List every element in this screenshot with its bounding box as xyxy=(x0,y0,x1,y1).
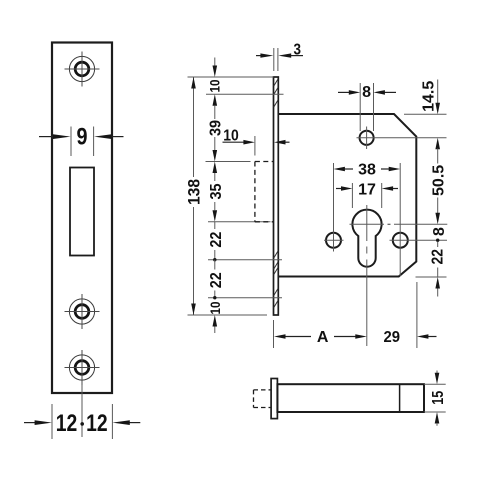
right column arrow up to y=277 from below xyxy=(435,277,440,289)
dimension 15 top arrow xyxy=(435,373,440,385)
extension line y=315 (bottom of faceplate) xyxy=(188,314,268,316)
chain line 161-222 lower part xyxy=(214,202,216,210)
svg-text:22: 22 xyxy=(208,272,225,288)
hidden bolt (dashed) behind faceplate xyxy=(255,162,274,222)
dimension 17: right arrow xyxy=(392,188,398,190)
chain: arrow down onto y=161.5 xyxy=(213,150,218,162)
dimension 3: left arrow xyxy=(256,55,262,57)
extension line y=221.8 xyxy=(208,221,271,223)
svg-text:9: 9 xyxy=(77,123,88,150)
svg-text:12: 12 xyxy=(86,410,108,437)
dimension 3: extension lines above faceplate xyxy=(273,48,275,71)
chain tail below y=315 xyxy=(214,327,216,334)
extension line y=277 (case bottom) right xyxy=(416,276,447,278)
dimension 29: outside arrow at right xyxy=(428,336,437,338)
chain: arrow down onto y=221.8 xyxy=(213,210,218,222)
extension line y=297.7 (crosses plate) xyxy=(208,297,282,299)
screw hole lower-2 of faceplate xyxy=(65,350,100,385)
svg-text:138: 138 xyxy=(185,179,204,205)
chain line 222-260 upper part xyxy=(214,222,216,229)
euro cylinder vertical centerline (upper) xyxy=(366,205,368,241)
left fixing hole xyxy=(326,233,341,248)
svg-text:A: A xyxy=(317,329,329,346)
right column dot at y=239.8 xyxy=(436,239,439,242)
svg-text:39: 39 xyxy=(207,120,224,136)
side view: cap divider line xyxy=(399,384,401,412)
svg-text:29: 29 xyxy=(383,329,400,346)
side view: hidden bolt (dashed) xyxy=(254,390,272,408)
svg-text:12: 12 xyxy=(56,410,78,437)
faceplate side view (section) xyxy=(274,77,279,315)
lock case outline with chamfered right corners xyxy=(278,114,416,277)
dimension 9: extension lines xyxy=(70,127,72,157)
svg-text:38: 38 xyxy=(358,161,376,178)
right fixing hole xyxy=(393,233,408,248)
screw hole lower-1 of faceplate xyxy=(65,294,100,329)
chain line 260-298 lower part xyxy=(214,291,216,298)
section hatching on faceplate side view xyxy=(274,79,278,308)
dimension 10 horizontal: left arrow pointing right xyxy=(223,141,246,143)
chain: arrow up from y=161.5 (35 top) xyxy=(213,162,218,174)
right column line 137-224 upper xyxy=(437,149,439,164)
svg-text:17: 17 xyxy=(358,181,376,198)
right column arrow up to y=137.8 (50.5 top) xyxy=(435,138,440,150)
dimension 17: extension lines xyxy=(351,183,353,208)
side view: faceplate bar xyxy=(271,379,277,419)
faceplate bolt cutout xyxy=(70,168,94,256)
top hole horizontal centerline extended right xyxy=(357,137,447,139)
dimension 12|12: left arrow xyxy=(24,422,36,424)
svg-text:10: 10 xyxy=(206,79,222,92)
screw hole top of faceplate xyxy=(65,52,100,87)
dimension 138: bottom arrow xyxy=(191,304,196,316)
svg-text:22: 22 xyxy=(430,249,447,265)
right column arrow down to y=224.3 (50.5 bottom) xyxy=(435,213,440,225)
dimension 10 horizontal: right arrow pointing left xyxy=(284,141,290,143)
top hole vertical centerline xyxy=(366,127,368,150)
svg-text:35: 35 xyxy=(208,183,225,199)
chain: arrow up onto y=94.2 xyxy=(213,94,218,106)
side view: lock body xyxy=(277,384,424,412)
right hole horizontal centerline extended right xyxy=(390,239,448,241)
chain: arrow up onto y=315 from below xyxy=(213,315,218,327)
right column line 240-277 lower xyxy=(437,268,439,278)
chain line 161-222 upper part xyxy=(214,173,216,181)
euro cylinder vertical centerline (lower) xyxy=(366,260,368,347)
svg-text:8: 8 xyxy=(362,84,371,101)
right hole vertical extension (38 dim) xyxy=(399,163,401,276)
extension line y=94.2 xyxy=(206,93,284,95)
svg-text:50.5: 50.5 xyxy=(430,165,447,196)
dimension 8 (top hole dia): extension lines xyxy=(359,83,361,131)
svg-text:22: 22 xyxy=(208,232,225,248)
right column: 14.5 leader line and arrow xyxy=(437,80,439,104)
chain line 222-260 lower part xyxy=(214,250,216,260)
svg-text:8: 8 xyxy=(431,227,448,236)
dimension 9: right arrow xyxy=(112,136,124,138)
euro profile cylinder hole xyxy=(352,210,381,267)
chain line 94-161 upper part xyxy=(214,106,216,119)
chain line 260-298 upper part xyxy=(214,260,216,270)
dimension 3: right arrow xyxy=(291,55,304,57)
extension line y=161.5 xyxy=(206,161,251,163)
right column tail below y=277 xyxy=(437,289,439,297)
dimension 12|12: extension lines xyxy=(51,404,53,439)
chain: arrow down onto y=77 xyxy=(213,66,218,78)
dimension 8: left arrow xyxy=(338,91,350,93)
centerline dot on 12|12 dimension xyxy=(80,422,84,426)
extension line y=114.3 (case top) right xyxy=(404,113,447,115)
chain dot at y=259.7 xyxy=(213,258,216,261)
chain dot at y=297.7 xyxy=(213,296,216,299)
chain line 94-161 lower part xyxy=(214,137,216,150)
extension line x=416.9 below (29 dim) xyxy=(416,282,418,348)
dimension 138: vertical line xyxy=(193,77,195,177)
right column line 137-224 lower xyxy=(437,198,439,214)
left hole vertical extension (38 dim) xyxy=(333,163,335,252)
dimension 38: line and arrows xyxy=(344,168,353,170)
dimension 9: left arrow xyxy=(39,136,54,138)
dimension 15: arrows outside xyxy=(436,371,438,374)
dimension 12|12: right arrow xyxy=(129,422,141,424)
right column line 240-277 upper xyxy=(437,242,439,247)
extension line y=259.7 (crosses plate) xyxy=(208,259,282,261)
chain dimension line segments x=214.8 xyxy=(214,58,216,67)
left hole horizontal crosshair xyxy=(324,239,344,241)
euro cylinder horizontal dash-dot centerline xyxy=(350,223,385,225)
dimension 138: top arrow xyxy=(191,77,196,89)
extension line y=412 (body bottom) right xyxy=(424,411,446,413)
centerline below bottom screw hole xyxy=(81,385,83,437)
svg-text:15: 15 xyxy=(430,391,447,405)
extension line x=254.9 for dim 10 xyxy=(254,136,256,156)
extension line y=77 (top of faceplate) xyxy=(188,76,274,78)
dimension 8: right arrow xyxy=(384,91,396,93)
euro cylinder vertical centerline (dash) xyxy=(366,247,368,254)
extension line x=273.5 below (A dim) xyxy=(273,320,275,348)
extension line y=384.2 (body top) right xyxy=(424,383,446,385)
svg-text:14.5: 14.5 xyxy=(421,81,438,112)
svg-text:10: 10 xyxy=(207,301,223,314)
right column arrow down to y=114.3 xyxy=(435,103,440,115)
dimension 17: left arrow xyxy=(336,188,342,190)
dimension A: line and arrows xyxy=(286,336,312,338)
top fixing hole xyxy=(360,131,374,145)
faceplate front view outline xyxy=(52,43,112,394)
dimension 15 bottom arrow xyxy=(435,412,440,424)
svg-text:3: 3 xyxy=(293,41,301,58)
